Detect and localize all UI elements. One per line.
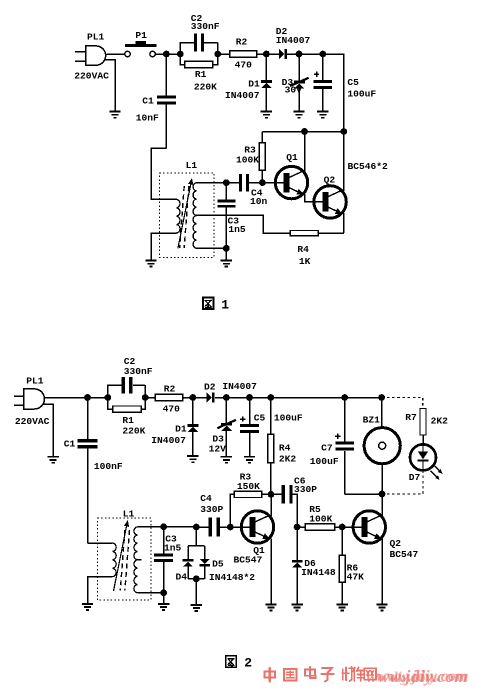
- label 1n5 (circuit 2): [164, 543, 182, 554]
- svg-text:R1: R1: [195, 69, 207, 80]
- node junction (C5 tap, circuit 2): [246, 394, 253, 401]
- diode D6: [292, 527, 303, 604]
- wire node to Q1 collector: [270, 494, 272, 516]
- wire plug ground stub: [105, 60, 116, 111]
- inductor L1 core dashed lines (circuit 1): [180, 186, 189, 248]
- svg-text:C4: C4: [200, 493, 212, 504]
- svg-text:IN4007: IN4007: [222, 381, 257, 392]
- label 1n5 (circuit 1): [228, 224, 246, 235]
- label BC546*2: [348, 161, 389, 172]
- label D3 (circuit 2): [212, 434, 224, 445]
- node junction (C1 tap): [163, 51, 170, 58]
- resistor R3 (circuit 1): [259, 132, 265, 183]
- node junction (BZ1 bottom): [379, 491, 386, 498]
- zener diode D3 (circuit 1): [290, 54, 309, 111]
- label 220K (circuit 2): [122, 426, 145, 437]
- transistor Q1 (circuit 1): [275, 166, 307, 198]
- label PL1: [87, 32, 105, 43]
- svg-text:D4: D4: [176, 572, 188, 583]
- wire Q1 base: [262, 182, 284, 184]
- label 100nF: [94, 461, 123, 472]
- svg-text:1n5: 1n5: [164, 543, 182, 554]
- svg-text:100uF: 100uF: [347, 89, 376, 100]
- ground (D4/D5): [191, 605, 202, 611]
- wire Q1 emitter to Q2 base: [305, 194, 323, 202]
- inductor L1 core dashed lines (circuit 2): [120, 530, 129, 591]
- label 100uF (C7): [310, 456, 339, 467]
- svg-text:2: 2: [244, 656, 252, 671]
- label D2 (circuit 2): [204, 382, 216, 393]
- svg-text:BC547: BC547: [390, 549, 419, 560]
- svg-text:47K: 47K: [347, 571, 365, 582]
- resistor R1 (circuit 2): [108, 398, 145, 413]
- svg-text:C5: C5: [254, 412, 266, 423]
- resistor R1 (circuit 1): [180, 54, 217, 68]
- label 100uF (C5, circuit 2): [274, 412, 303, 423]
- wire plug ground stub (circuit 2): [44, 404, 54, 456]
- svg-text:1: 1: [221, 297, 229, 312]
- label Q2 (circuit 1): [324, 175, 336, 186]
- node junction (C2/R1 left): [177, 51, 184, 58]
- svg-text:1K: 1K: [299, 256, 311, 267]
- svg-text:R4: R4: [297, 244, 309, 255]
- inductor L1 primary winding (circuit 2): [113, 543, 116, 577]
- diode D1 (circuit 1): [261, 54, 272, 111]
- svg-text:220VAC: 220VAC: [15, 416, 50, 427]
- label 220VAC (circuit 2): [15, 416, 50, 427]
- resistor R3 (circuit 2): [234, 491, 271, 497]
- capacitor C6: [271, 485, 297, 527]
- wire R4 node to C7 node: [271, 397, 345, 399]
- capacitor C1 (circuit 1): [157, 54, 176, 148]
- inductor L1 adjust arrow (circuit 1): [178, 178, 193, 248]
- label D6: [304, 558, 316, 569]
- label 100K (circuit 1): [236, 155, 259, 166]
- label P1: [135, 30, 147, 41]
- label IN4007 (D1, circuit 2): [151, 435, 186, 446]
- svg-text:IN4007: IN4007: [276, 35, 311, 46]
- ground (C3, circuit 1): [221, 261, 232, 267]
- resistor R4 (circuit 1): [290, 230, 318, 236]
- inductor L1 primary winding (circuit 1): [177, 199, 180, 233]
- label Q1 (circuit 1): [286, 152, 298, 163]
- svg-text:Q2: Q2: [324, 175, 336, 186]
- label R1 (circuit 1): [195, 69, 207, 80]
- ground (D1, circuit 2): [187, 456, 198, 462]
- watermark 中国电子制作网 www.jdiy.com: [265, 667, 469, 686]
- label 1K: [299, 256, 311, 267]
- label 330nF (circuit 1): [191, 21, 220, 32]
- inductor L1 secondary winding (circuit 1): [193, 183, 196, 249]
- label 220K (circuit 1): [194, 82, 217, 93]
- label L1 (circuit 2): [123, 509, 135, 520]
- wire C1 to L1 primary top (circuit 2): [88, 542, 113, 544]
- wire Q2 emitter to ground (circuit 2): [381, 539, 383, 604]
- plug PL1 (220VAC mains plug, circuit 2): [14, 389, 45, 409]
- label C3 (circuit 2): [165, 534, 177, 545]
- inductor L1 adjust arrow (circuit 2): [114, 520, 130, 591]
- label C1 (circuit 2): [64, 439, 76, 450]
- node junction (D1 tap): [263, 51, 270, 58]
- label BZ1: [363, 415, 381, 426]
- wire Q1 emitter to ground (circuit 2): [270, 539, 272, 604]
- ground (D1, circuit 1): [261, 112, 272, 118]
- wire C1 to L1 primary top: [151, 148, 177, 199]
- svg-text:D2: D2: [204, 382, 216, 393]
- label IN4007 (D1, circuit 1): [225, 90, 260, 101]
- wire supply rail corner: [323, 54, 344, 132]
- label IN4148 (D6): [301, 567, 336, 578]
- node junction (R4 tap, circuit 2): [267, 394, 274, 401]
- svg-text:330nF: 330nF: [191, 21, 220, 32]
- label C5 (circuit 1): [347, 77, 359, 88]
- wire P1 to node: [155, 53, 180, 55]
- svg-text:100uF: 100uF: [274, 412, 303, 423]
- svg-text:2K2: 2K2: [431, 416, 449, 427]
- wire plug output (circuit 2): [45, 397, 87, 399]
- svg-text:R7: R7: [405, 412, 417, 423]
- transistor Q2 (circuit 1): [314, 186, 346, 218]
- svg-text:R4: R4: [279, 442, 291, 453]
- ground (plug, circuit 2): [48, 457, 59, 463]
- svg-text:470: 470: [235, 60, 253, 71]
- label D7: [409, 472, 421, 483]
- wire node to R2 (circuit 2): [145, 397, 155, 399]
- wire R2 to D1 node (circuit 2): [183, 397, 193, 399]
- resistor R2 (circuit 1): [230, 51, 257, 57]
- wire L1 secondary bottom tap (circuit 2): [137, 592, 163, 594]
- LED D7 light arrows: [431, 465, 443, 480]
- svg-text:10nF: 10nF: [136, 113, 159, 124]
- inductor L1 dashed enclosure (circuit 1): [160, 173, 215, 258]
- wire L1 secondary top tap (circuit 2): [137, 526, 163, 528]
- inductor L1 secondary winding (circuit 2): [134, 527, 137, 593]
- svg-text:1n5: 1n5: [228, 224, 246, 235]
- wire BZ1 bottom to Q2 collector: [381, 494, 383, 516]
- label 2K2 (R7): [431, 416, 449, 427]
- label 330P (C4): [200, 504, 223, 515]
- svg-text:100K: 100K: [309, 514, 332, 525]
- label R3 (circuit 2): [240, 472, 252, 483]
- label IN4007 (D2, circuit 1): [276, 35, 311, 46]
- wire collector rail (circuit 1): [262, 131, 343, 133]
- wire top tap to C4 node (circuit 2): [164, 526, 197, 528]
- label R1 (circuit 2): [122, 415, 134, 426]
- wire C5 to R4 node (circuit 2): [250, 397, 271, 399]
- node junction (Q1 collector rail): [301, 128, 308, 135]
- label 470 (circuit 1): [235, 60, 253, 71]
- label R2 (circuit 2): [164, 383, 176, 394]
- label R5: [309, 504, 321, 515]
- node junction (C4 left node): [193, 524, 200, 531]
- diode D2 (circuit 1): [279, 49, 299, 59]
- wire R2 to D1 node: [257, 53, 267, 55]
- svg-text:100nF: 100nF: [94, 461, 123, 472]
- wire R7 to D7: [422, 435, 424, 445]
- node junction (C2/R1 right): [214, 51, 221, 58]
- wire emitter to R4: [318, 232, 344, 234]
- svg-text:100uF: 100uF: [310, 456, 339, 467]
- svg-text:330P: 330P: [200, 504, 223, 515]
- svg-text:BZ1: BZ1: [363, 415, 381, 426]
- svg-text:2K2: 2K2: [279, 454, 297, 465]
- label 2K2 (R4, circuit 2): [279, 454, 297, 465]
- inductor L1 dashed enclosure (circuit 2): [98, 518, 151, 600]
- label 12V: [209, 444, 227, 455]
- wire Q2 collector up: [343, 132, 345, 192]
- diode D5: [199, 559, 210, 579]
- diode D1 (circuit 2): [187, 398, 198, 456]
- diode D2 (circuit 2): [206, 392, 226, 402]
- wire L1 secondary mid tap stub (circuit 2): [137, 559, 141, 561]
- wire D3 node to C5 node: [299, 53, 323, 55]
- node junction (D3 tap): [296, 51, 303, 58]
- wire plug output to P1: [106, 53, 124, 55]
- svg-text:diy.com: diy.com: [390, 670, 437, 686]
- svg-text:L1: L1: [186, 160, 198, 171]
- ground (C5, circuit 2): [244, 457, 255, 463]
- svg-text:100K: 100K: [236, 155, 259, 166]
- wire Q1 base (circuit 2): [230, 526, 250, 528]
- svg-text:L1: L1: [123, 509, 135, 520]
- caption 图 2 glyph: [226, 656, 236, 668]
- capacitor C4 (circuit 1): [239, 174, 263, 192]
- node junction (C3 top): [223, 179, 230, 186]
- ground (L1 primary, circuit 1): [145, 261, 156, 267]
- svg-text:220K: 220K: [122, 426, 145, 437]
- svg-text:330nF: 330nF: [124, 366, 153, 377]
- label 330nF (circuit 2): [124, 366, 153, 377]
- wire R4 to L1 mid tap: [196, 215, 290, 233]
- ground (R6): [337, 604, 348, 610]
- wire rail to C2 node: [88, 397, 108, 399]
- diode pair D4 D5 branch: [188, 527, 205, 559]
- resistor R6: [339, 527, 345, 604]
- capacitor C3 (circuit 1): [217, 183, 235, 249]
- label 330P (C6): [294, 484, 317, 495]
- label C4 (circuit 1): [251, 187, 263, 198]
- wire D4 D5 bottom join: [188, 578, 205, 580]
- node junction (D4/D5 bottom): [193, 576, 200, 583]
- label 47K: [347, 571, 365, 582]
- ground (D3, circuit 2): [221, 457, 232, 463]
- node junction (C2/R1 left, circuit 2): [105, 394, 112, 401]
- svg-text:150K: 150K: [237, 481, 260, 492]
- svg-text:D1: D1: [175, 424, 187, 435]
- wire top tap to C4: [226, 182, 239, 184]
- node junction (D3 tap, circuit 2): [223, 394, 230, 401]
- label D3 (circuit 1): [282, 77, 294, 88]
- svg-text:D5: D5: [212, 558, 224, 569]
- zener diode D3 (circuit 2): [217, 398, 236, 456]
- svg-text:P1: P1: [135, 30, 147, 41]
- label C5 (circuit 2): [254, 412, 266, 423]
- transistor Q1 (circuit 2): [241, 511, 273, 543]
- node junction (C3 top, circuit 2): [160, 523, 167, 530]
- node junction (BZ1 top): [378, 394, 385, 401]
- label 30V: [285, 85, 303, 96]
- label 10n: [250, 196, 268, 207]
- label D1 (circuit 1): [248, 79, 260, 90]
- svg-text:PL1: PL1: [26, 376, 44, 387]
- resistor R4 (circuit 2): [268, 398, 274, 495]
- node junction (Q1 base node): [259, 179, 266, 186]
- capacitor C7 polarized: [335, 398, 382, 495]
- svg-text:R2: R2: [164, 383, 176, 394]
- wire node to R2: [218, 53, 230, 55]
- capacitor C5 polarized (circuit 2): [240, 398, 259, 456]
- label L1 (circuit 1): [186, 160, 198, 171]
- label 100K (R5): [309, 514, 332, 525]
- resistor R2 (circuit 2): [155, 394, 183, 400]
- capacitor C5 polarized (circuit 1): [313, 54, 332, 111]
- svg-text:IN4148*2: IN4148*2: [209, 572, 255, 583]
- pushbutton P1: [125, 41, 157, 57]
- svg-text:30V: 30V: [285, 85, 303, 96]
- wire to D2 (circuit 2): [193, 397, 206, 399]
- svg-text:BC547: BC547: [234, 555, 263, 566]
- label C3 (circuit 1): [228, 216, 240, 227]
- node junction (Q1 base, circuit 2): [227, 524, 234, 531]
- wire Q1 collector up: [304, 132, 306, 172]
- capacitor C4 (circuit 2): [196, 518, 230, 537]
- ground (Q2, circuit 2): [376, 604, 387, 610]
- caption 图 1 glyph: [203, 298, 214, 310]
- svg-text:R1: R1: [122, 415, 134, 426]
- node junction (C5 tap): [319, 51, 326, 58]
- resistor R5: [297, 524, 342, 530]
- wire C3 bottom to ground (circuit 2): [163, 593, 165, 603]
- ground (Q1 emitter, circuit 2): [265, 604, 276, 610]
- label R4 (circuit 1): [297, 244, 309, 255]
- svg-text:Q2: Q2: [390, 538, 402, 549]
- resistor R7: [420, 409, 426, 436]
- svg-text:R2: R2: [236, 37, 248, 48]
- svg-text:PL1: PL1: [87, 32, 105, 43]
- capacitor C2 (circuit 1): [180, 34, 217, 55]
- svg-text:12V: 12V: [209, 444, 227, 455]
- svg-text:10n: 10n: [250, 196, 268, 207]
- label C2 (circuit 1): [191, 13, 203, 24]
- wire L1 secondary bottom tap: [196, 247, 226, 249]
- svg-text:220K: 220K: [194, 82, 217, 93]
- label D5: [212, 558, 224, 569]
- wire Q2 emitter down: [343, 213, 345, 233]
- wire D3 to C5 node (circuit 2): [226, 397, 249, 399]
- label R6: [347, 563, 359, 574]
- node junction (R5 left/D6): [294, 524, 301, 531]
- label 100uF (circuit 1): [347, 89, 376, 100]
- label Q2 (circuit 2): [390, 538, 402, 549]
- capacitor C2 (circuit 2): [108, 377, 145, 398]
- label C1 (circuit 1): [142, 95, 154, 106]
- ground (C3, circuit 2): [158, 604, 169, 610]
- svg-text:C5: C5: [347, 77, 359, 88]
- label BC547 (Q1): [234, 555, 263, 566]
- svg-text:C1: C1: [142, 95, 154, 106]
- svg-text:C7: C7: [321, 442, 333, 453]
- wire L1 secondary top tap: [196, 182, 226, 184]
- transistor Q2 (circuit 2): [353, 511, 385, 543]
- caption digit 1: [221, 297, 229, 312]
- ground (D3, circuit 1): [293, 112, 304, 118]
- label C4 (circuit 2): [200, 493, 212, 504]
- ground (plug, circuit 1): [109, 112, 120, 118]
- label IN4148*2: [209, 572, 255, 583]
- label C7: [321, 442, 333, 453]
- label C6: [294, 476, 306, 487]
- label R7: [405, 412, 417, 423]
- capacitor C1 (circuit 2): [78, 398, 98, 544]
- plug PL1 (220VAC mains plug, circuit 1): [75, 46, 106, 65]
- wire to D2: [266, 53, 278, 55]
- node junction (D1 tap, circuit 2): [190, 394, 197, 401]
- svg-text:BC546*2: BC546*2: [348, 161, 389, 172]
- svg-text:330P: 330P: [294, 484, 317, 495]
- ground (C5, circuit 1): [317, 112, 328, 118]
- label D1 (circuit 2): [175, 424, 187, 435]
- label BC547 (Q2): [390, 549, 419, 560]
- label 150K: [237, 481, 260, 492]
- wire dashed D7 to BZ1 bottom: [382, 470, 423, 494]
- svg-text:Q1: Q1: [286, 152, 298, 163]
- svg-text:IN4148: IN4148: [301, 567, 336, 578]
- node junction (Q2 base, circuit 2): [339, 524, 346, 531]
- label 470 (circuit 2): [163, 404, 181, 415]
- label PL1 (circuit 2): [26, 376, 44, 387]
- wire L1 primary bottom (circuit 2): [88, 577, 113, 603]
- svg-text:IN4007: IN4007: [151, 435, 186, 446]
- label D4: [176, 572, 188, 583]
- label R3 (circuit 1): [244, 144, 256, 155]
- label C2 (circuit 2): [124, 356, 136, 367]
- label Q1 (circuit 2): [253, 545, 265, 556]
- label IN4007 (D2, circuit 2): [222, 381, 257, 392]
- LED D7: [410, 444, 436, 470]
- wire D4/D5 to ground: [195, 579, 197, 604]
- wire Q2 base (circuit 2): [342, 526, 362, 528]
- label 10nF: [136, 113, 159, 124]
- wire C3 bottom to ground: [225, 248, 227, 259]
- capacitor C3 (circuit 2): [154, 527, 173, 593]
- caption digit 2: [244, 656, 252, 671]
- svg-text:470: 470: [163, 404, 181, 415]
- wire L1 primary bottom to ground: [151, 233, 177, 260]
- buzzer BZ1: [364, 398, 400, 495]
- svg-text:IN4007: IN4007: [225, 90, 260, 101]
- diode D4: [183, 559, 194, 579]
- wire R3 left leg: [230, 494, 234, 527]
- label D2 (circuit 1): [276, 26, 288, 37]
- node junction (C1 tap, circuit 2): [84, 394, 91, 401]
- ground (D6): [291, 604, 302, 610]
- node junction (C3 bottom, circuit 2): [160, 589, 167, 596]
- svg-text:C1: C1: [64, 439, 76, 450]
- wire dashed rail to R7 branch: [382, 398, 423, 409]
- svg-text:D7: D7: [409, 472, 421, 483]
- node junction (C3 bottom): [223, 245, 230, 252]
- node junction (C7 tap): [341, 394, 348, 401]
- label 220VAC (circuit 1): [74, 71, 109, 82]
- node junction (C2/R1 right, circuit 2): [142, 394, 149, 401]
- label R2 (circuit 1): [236, 37, 248, 48]
- node junction (rail right corner): [340, 128, 347, 135]
- svg-text:220VAC: 220VAC: [74, 71, 109, 82]
- node junction (R3/R4/C6 node): [268, 491, 275, 498]
- label R4 (circuit 2): [279, 442, 291, 453]
- ground (L1 primary, circuit 2): [82, 604, 93, 610]
- wire C7 node to BZ1 node: [345, 397, 382, 399]
